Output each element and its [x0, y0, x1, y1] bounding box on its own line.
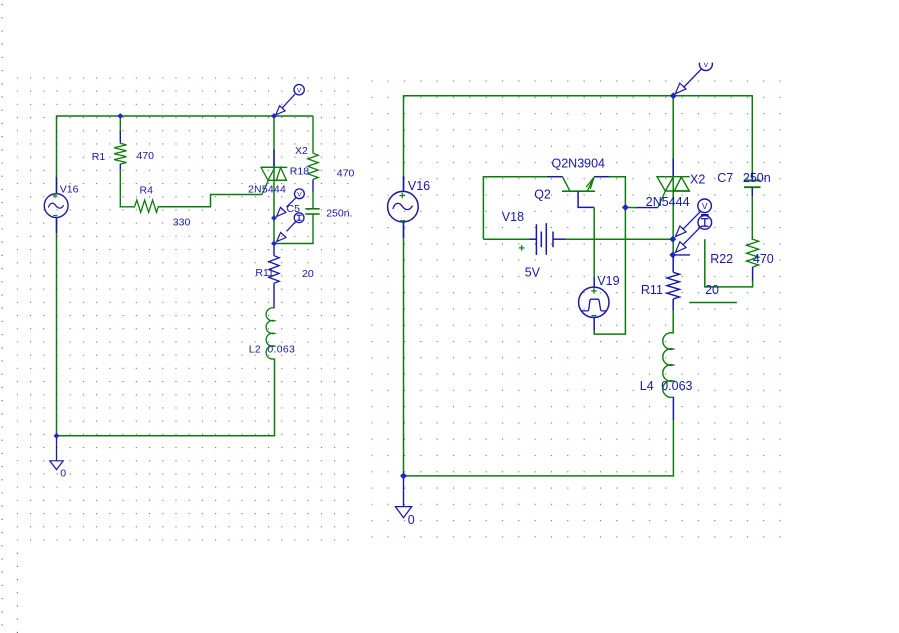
svg-text:L4: L4 [640, 379, 654, 393]
node gate-mid (left) [272, 216, 277, 221]
svg-text:R18: R18 [290, 165, 309, 177]
node ground (left) [54, 433, 59, 438]
svg-text:470: 470 [753, 252, 774, 266]
node R1-top [118, 114, 123, 119]
svg-text:2N5444: 2N5444 [646, 195, 690, 209]
wire bottom left-circuit [56, 435, 275, 437]
resistor R22 470 [710, 239, 774, 287]
node R11-top (right) [670, 252, 676, 258]
svg-text:470: 470 [337, 167, 355, 179]
svg-text:0: 0 [60, 468, 66, 480]
node stub right [673, 254, 690, 256]
wire top left-circuit [57, 115, 314, 117]
svg-text:V19: V19 [597, 274, 619, 288]
wire bottom right-circuit [403, 475, 674, 477]
voltage probe top (right, clipped) [675, 58, 712, 94]
wire left side right-circuit [403, 95, 405, 192]
wire cap to R22 [751, 196, 753, 240]
node cap-bottom (left) [272, 241, 277, 246]
triac X2 2N5444 (left) [248, 116, 308, 244]
svg-text:250n.: 250n. [326, 208, 352, 220]
wire inductor to bottom (left) [274, 359, 276, 437]
svg-text:V16: V16 [408, 179, 430, 193]
ground 0 (left) [50, 436, 67, 480]
svg-text:250n: 250n [743, 171, 771, 185]
svg-text:V: V [297, 88, 302, 95]
svg-text:5V: 5V [525, 266, 541, 280]
wire cap bottom to node [274, 243, 314, 245]
capacitor C7 250n [717, 171, 771, 197]
voltage probe at top node (left) [276, 85, 305, 115]
resistor R4 330 [120, 185, 191, 229]
transistor Q2 Q2N3904 [534, 157, 610, 208]
svg-text:V18: V18 [502, 210, 524, 224]
battery V18 5V [483, 210, 566, 280]
wire left side left-circuit [56, 115, 58, 194]
wire V19 bottom [594, 330, 626, 334]
svg-text:R22: R22 [710, 252, 733, 266]
svg-text:470: 470 [137, 150, 155, 162]
wire battery to node [565, 238, 673, 240]
node gate (right) [623, 205, 629, 211]
current probe (left) [277, 213, 304, 242]
node triac-top (left) [272, 114, 277, 119]
AC source V16 (left) [44, 177, 78, 233]
wire R22 bottom loop [705, 239, 753, 287]
inductor L2 0.063 [249, 308, 296, 359]
svg-text:2N5444: 2N5444 [248, 184, 286, 196]
svg-text:V: V [702, 201, 708, 211]
ground 0 (right) [395, 476, 414, 527]
svg-text:330: 330 [173, 216, 191, 228]
svg-text:20: 20 [705, 283, 719, 297]
svg-text:0: 0 [408, 513, 415, 527]
svg-text:20: 20 [302, 268, 314, 280]
AC source V16 (right) [388, 176, 431, 238]
node battery (right) [670, 236, 676, 242]
svg-text:Q2N3904: Q2N3904 [552, 157, 606, 171]
svg-text:C7: C7 [717, 171, 733, 185]
wire R4 to triac gate [158, 195, 262, 207]
wire collector loop (box) [483, 177, 548, 240]
wire top right-circuit [404, 95, 753, 97]
svg-text:R4: R4 [140, 185, 154, 197]
svg-text:R11: R11 [255, 267, 274, 279]
resistor R11 20 (right) [641, 256, 719, 311]
svg-text:0.063: 0.063 [661, 379, 692, 393]
svg-text:L2 0.063: L2 0.063 [249, 344, 296, 356]
capacitor C5 250n [287, 203, 353, 244]
voltage probe at mid node (left) [277, 189, 305, 217]
inductor L4 0.063 [640, 310, 693, 420]
triac X2 2N5444 (right) [646, 96, 706, 258]
current probe (right) [675, 216, 711, 253]
pulse source V19 [579, 274, 620, 331]
resistor R18 470 [290, 116, 355, 209]
wire inductor to bottom (right) [672, 419, 674, 477]
resistor R1 470 [92, 116, 154, 208]
stray wire segment [689, 302, 737, 304]
wire right branch top [751, 95, 753, 173]
wire emitter to gate-node [609, 177, 625, 334]
wire gate-node to triac gate [625, 206, 638, 208]
svg-text:V16: V16 [60, 184, 79, 196]
svg-text:Q2: Q2 [534, 188, 551, 202]
node ground (right) [401, 473, 407, 479]
svg-text:X2: X2 [295, 145, 308, 157]
svg-text:R1: R1 [92, 151, 106, 163]
wire base to V19 [593, 207, 595, 277]
svg-text:X2: X2 [690, 172, 705, 186]
voltage probe mid (right) [675, 199, 711, 237]
node top (right) [670, 93, 676, 99]
svg-text:R11: R11 [641, 283, 663, 297]
svg-text:V: V [297, 192, 302, 199]
resistor R11 20 (left) [255, 244, 313, 309]
